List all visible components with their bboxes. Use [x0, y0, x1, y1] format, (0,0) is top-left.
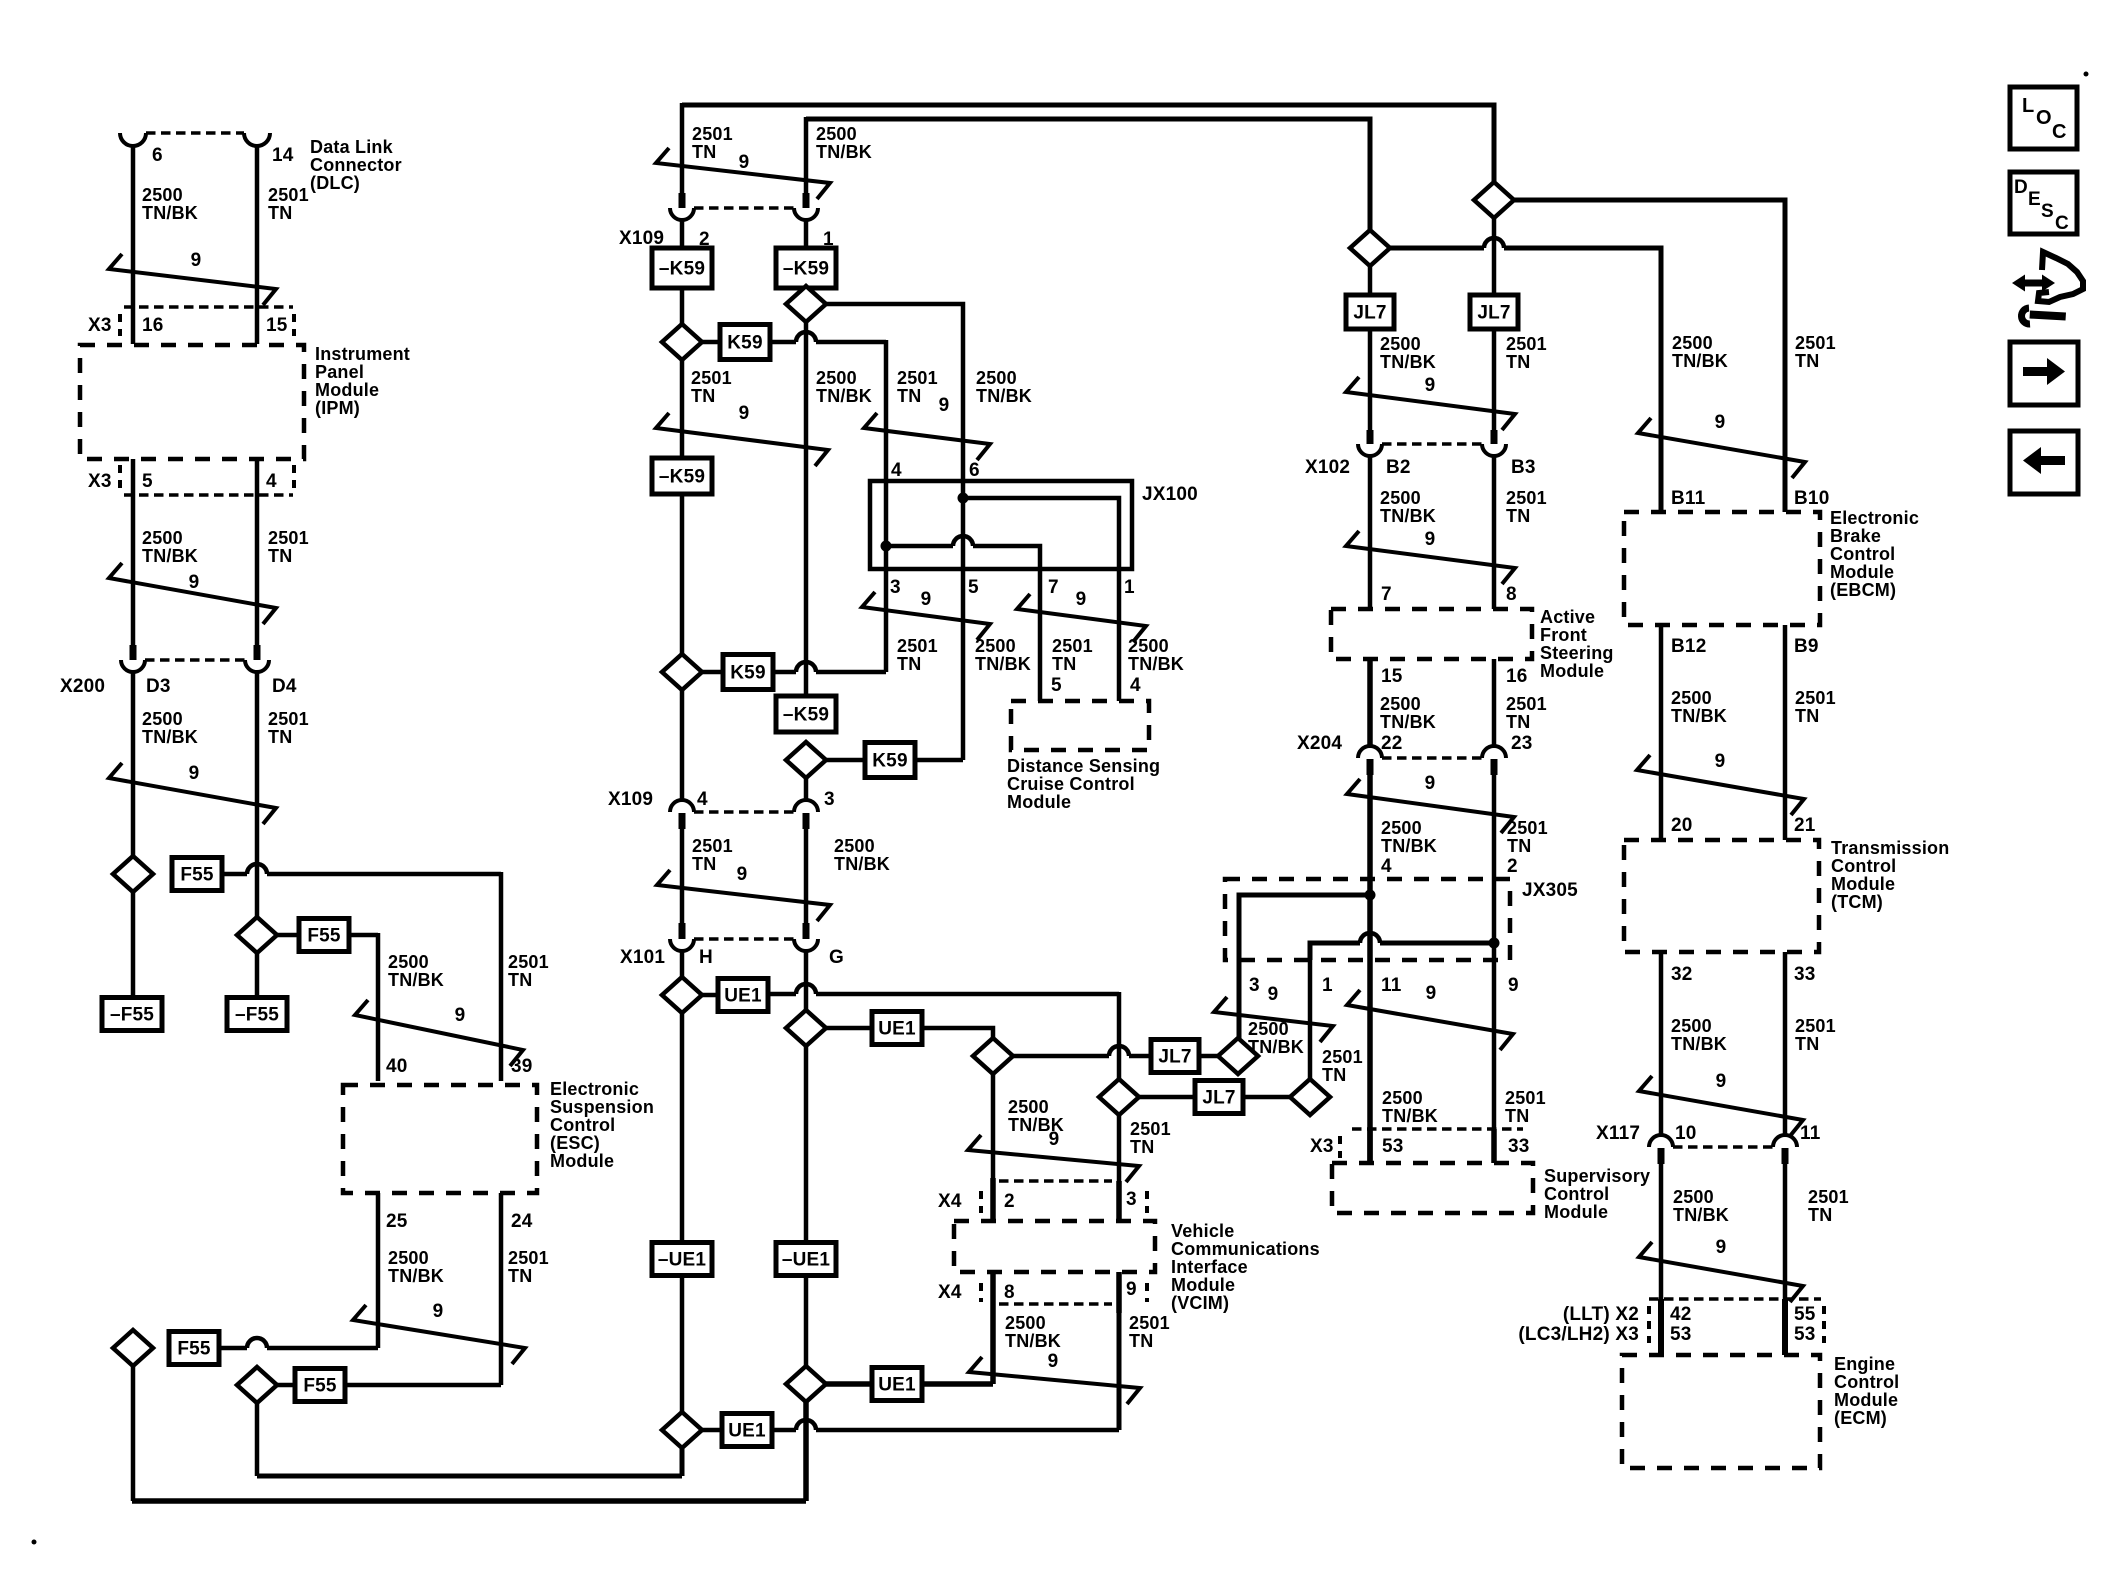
svg-text:X3: X3: [88, 315, 112, 336]
wire 2501 TN DLC:14 to IPM X3:15: [255, 145, 260, 344]
svg-text:E: E: [2028, 189, 2041, 210]
net tag UE1: [718, 979, 768, 1012]
svg-text:B2: B2: [1386, 457, 1411, 478]
net tag -F55 on 2500 TN/BK: [102, 998, 162, 1031]
net tag JL7 second: [1195, 1081, 1243, 1114]
stub VCIM X4:9: [1116, 1272, 1122, 1313]
connector X101 dashed body: [694, 937, 794, 940]
svg-text:42: 42: [1670, 1304, 1692, 1325]
svg-text:X117: X117: [1596, 1123, 1640, 1144]
wire EBCM:B12 to TCM:20: [1659, 625, 1664, 840]
wire diamond x993 down to X4:2: [991, 1074, 996, 1182]
connector DLC pin 14 cup: [244, 133, 270, 146]
wire 2501 TN down to X109:2: [680, 103, 685, 193]
connector X204 dashed body: [1382, 756, 1482, 759]
svg-text:53: 53: [1670, 1324, 1692, 1345]
wire K59 diamond to JX100:3: [796, 662, 816, 672]
crossing 9 above ESC: [355, 1000, 523, 1066]
net tag F55: [169, 1332, 219, 1365]
stub SCM X3:33: [1491, 1129, 1497, 1163]
svg-text:10: 10: [1675, 1123, 1697, 1144]
svg-text:22: 22: [1381, 733, 1403, 754]
net tag F55: [172, 858, 222, 891]
svg-text:6: 6: [969, 460, 980, 481]
svg-text:4: 4: [1130, 675, 1141, 696]
wire M2 to -UE1: [804, 1046, 809, 1245]
net tag K59: [720, 325, 770, 360]
connector X4 top VCIM: [999, 1179, 1112, 1182]
svg-text:–UE1: –UE1: [658, 1250, 707, 1271]
svg-text:8: 8: [1506, 584, 1517, 605]
svg-text:B11: B11: [1671, 488, 1706, 509]
svg-text:9: 9: [1425, 773, 1436, 794]
wire JL7 tag to diamond 1238: [1199, 1054, 1218, 1059]
svg-text:6: 6: [152, 145, 163, 166]
wire JL7 to X102:B2: [1368, 329, 1373, 430]
crossing 9 below JX305 right: [1347, 990, 1513, 1050]
svg-text:15: 15: [1381, 666, 1403, 687]
svg-text:1: 1: [1124, 577, 1135, 598]
svg-text:9: 9: [1508, 975, 1519, 996]
svg-text:X200: X200: [60, 676, 105, 697]
bus 2501 TN top horizontal: [682, 105, 1494, 182]
crossing 9 TCM-X117: [1639, 1076, 1803, 1136]
net tag UE1 fourth: [722, 1414, 772, 1447]
crossing 9 X204-JX305: [1347, 779, 1514, 833]
connector X109 pin 3: [794, 800, 818, 812]
connector X200 D4: [254, 645, 261, 660]
wire JL7 to diamond 1310: [1243, 1095, 1290, 1100]
wire M2 to X109:3: [804, 778, 809, 801]
svg-text:F55: F55: [180, 865, 214, 886]
svg-text:9: 9: [1716, 1071, 1727, 1092]
stub ECM 55: [1782, 1299, 1788, 1355]
svg-text:9: 9: [1048, 1351, 1059, 1372]
svg-text:UE1: UE1: [878, 1019, 916, 1040]
splice diamond on 2500 TN/BK: [1350, 230, 1390, 266]
junction block JX100 box: [870, 481, 1132, 569]
splice diamond on 2501 TN upper: [662, 324, 702, 360]
svg-text:4: 4: [697, 789, 708, 810]
splice diamond on x1119: [1099, 1079, 1139, 1115]
svg-text:9: 9: [1126, 1279, 1137, 1300]
svg-text:G: G: [829, 947, 844, 968]
module VCIM dashed box: [954, 1221, 1155, 1272]
svg-text:4: 4: [891, 460, 902, 481]
JX100 internal bus to pin 1: [958, 493, 969, 504]
splice diamond F55 lower on 2501 TN: [237, 1367, 277, 1403]
svg-text:53: 53: [1794, 1324, 1816, 1345]
connector X3 SCM: [1352, 1127, 1523, 1130]
crossing 9 over JX100 feeders: [864, 413, 990, 460]
bus 2500 TN/BK top horizontal: [806, 119, 1370, 230]
svg-text:9: 9: [939, 395, 950, 416]
wire JX100:7 down to DSCC:5: [1038, 569, 1043, 701]
svg-text:8: 8: [1004, 1282, 1015, 1303]
wire UE1 third row: [826, 1381, 872, 1387]
crossing 9 X200-F55: [109, 763, 276, 824]
connector X101 pin G: [803, 923, 810, 939]
svg-text:7: 7: [1048, 577, 1059, 598]
svg-text:40: 40: [386, 1056, 408, 1077]
svg-text:2: 2: [1507, 856, 1518, 877]
wire JX305:1 to diamond: [1308, 960, 1313, 1080]
connector X200 dashed body: [145, 658, 245, 661]
crossing 9 below JX305 left: [1214, 997, 1333, 1042]
svg-text:K59: K59: [730, 663, 765, 684]
svg-text:–K59: –K59: [659, 467, 705, 488]
svg-text:D4: D4: [272, 676, 297, 697]
svg-text:15: 15: [266, 315, 288, 336]
wire 2500 TN/BK X200:D3 down: [131, 672, 136, 857]
splice diamond UE1 third on M2: [786, 1366, 826, 1402]
wire JX305:9 to X3:33: [1492, 960, 1497, 1163]
svg-text:9: 9: [1426, 983, 1437, 1004]
icon arrow left box: [2010, 431, 2078, 494]
wire diamond to EBCM B10 corner: [1514, 200, 1785, 512]
wire AFS:15 to X204:22: [1367, 659, 1373, 746]
wire diamond M2 to JX100 pin 6: [826, 304, 963, 481]
svg-text:5: 5: [1051, 675, 1062, 696]
wire F55 row to ESC25 riser: [247, 1338, 267, 1348]
wire M2 -UE1 to UE1 diamond bottom: [804, 1276, 809, 1366]
wire EBCM:B9 to TCM:21: [1783, 625, 1788, 840]
svg-text:B3: B3: [1511, 457, 1536, 478]
dot bottom left: [32, 1540, 37, 1545]
icon arrow right box: [2010, 342, 2078, 405]
svg-text:JL7: JL7: [1353, 303, 1386, 324]
JX305 wire 2-9 through: [1492, 879, 1497, 960]
wire L2 to bottom bus: [255, 1403, 260, 1476]
connector X204 pin 22: [1358, 746, 1382, 758]
wire 2500 TN/BK DLC:6 to IPM X3:16: [131, 145, 136, 344]
wire TCM:33 to X117:11: [1783, 952, 1788, 1136]
svg-text:9: 9: [1076, 589, 1087, 610]
wire L2 between F55 and -F55: [255, 953, 260, 998]
svg-text:24: 24: [511, 1211, 533, 1232]
splice diamond UE1 on 2501 TN: [662, 977, 702, 1013]
wire M1 to X109:4: [680, 690, 685, 801]
svg-text:X109: X109: [608, 789, 653, 810]
svg-text:C: C: [2052, 121, 2067, 143]
svg-text:3: 3: [1249, 975, 1260, 996]
svg-text:F55: F55: [307, 926, 341, 947]
crossing 9 below JX100 right: [1017, 594, 1146, 642]
svg-text:S: S: [2041, 201, 2054, 222]
connector X102 dashed body: [1382, 442, 1482, 445]
crossing 9 below ESC: [353, 1305, 525, 1364]
bus bottom 2500 TN/BK: [132, 1498, 806, 1504]
svg-text:33: 33: [1508, 1136, 1530, 1157]
stub SCM X3:53: [1367, 1129, 1373, 1163]
svg-text:9: 9: [189, 763, 200, 784]
wire JX305:11 to X3:53: [1367, 960, 1373, 1163]
svg-text:9: 9: [1268, 984, 1279, 1005]
crossing 9 over M1 M2: [656, 413, 828, 466]
splice diamond junction x993: [973, 1038, 1013, 1074]
splice diamond UE1 fourth on M1: [662, 1412, 702, 1448]
crossing 9 IPM-X200: [109, 563, 276, 624]
wire M1 -UE1 to UE1 diamond bottom: [680, 1276, 685, 1412]
svg-text:20: 20: [1671, 815, 1693, 836]
svg-text:L: L: [2022, 95, 2034, 117]
svg-text:5: 5: [968, 577, 979, 598]
net tag -UE1 on 2500 TN/BK: [776, 1243, 836, 1276]
stub ECM 42: [1658, 1299, 1664, 1355]
wire 2500 TN/BK IPM X3:5 to X200:D3: [131, 459, 136, 646]
svg-text:D3: D3: [146, 676, 171, 697]
svg-text:4: 4: [1381, 856, 1392, 877]
connector X109 pin 4: [670, 800, 694, 812]
crossing 9 below JX100 left: [862, 592, 990, 640]
connector X3 IPM top: [124, 305, 293, 308]
svg-text:JL7: JL7: [1477, 303, 1510, 324]
net tag UE1 second: [872, 1012, 922, 1045]
svg-text:11: 11: [1381, 975, 1402, 996]
connector ECM X2 X3: [1649, 1297, 1821, 1300]
svg-text:X4: X4: [938, 1191, 962, 1212]
svg-text:JL7: JL7: [1158, 1047, 1191, 1068]
crossing 9 X117-ECM: [1639, 1242, 1803, 1302]
wire diamond to JL7 tag: [1109, 1046, 1129, 1056]
crossing 9 X102-AFS: [1346, 531, 1515, 584]
icon wrench with arrows: [2012, 275, 2055, 292]
wire diamond to EBCM B11 corner: [1484, 238, 1504, 248]
svg-text:9: 9: [455, 1005, 466, 1026]
wire JX305:3 to diamond: [1237, 960, 1242, 1038]
net tag JL7 on 2501 TN: [1470, 295, 1518, 329]
wire X4:8 down to UE1 corner: [990, 1313, 996, 1384]
splice diamond F55 on 2501 TN: [237, 917, 277, 953]
stub VCIM X4:8: [990, 1272, 996, 1313]
svg-text:9: 9: [1715, 751, 1726, 772]
wire X4:9 down to UE1 corner: [1117, 1313, 1122, 1430]
svg-text:X204: X204: [1297, 733, 1342, 754]
svg-text:7: 7: [1381, 584, 1392, 605]
connector X117 pin 11: [1773, 1135, 1797, 1147]
svg-text:C: C: [2055, 213, 2069, 234]
net tag -UE1 on 2501 TN: [652, 1243, 712, 1276]
svg-text:5: 5: [142, 471, 153, 492]
connector X204 pin 23: [1482, 746, 1506, 758]
svg-text:23: 23: [1511, 733, 1533, 754]
svg-text:16: 16: [1506, 666, 1528, 687]
wire F55 row to ESC24 riser: [277, 1383, 295, 1388]
wire x1119 to VCIM X4:3: [1117, 1114, 1122, 1186]
net tag JL7 first: [1151, 1040, 1199, 1073]
svg-text:9: 9: [433, 1301, 444, 1322]
svg-text:K59: K59: [872, 751, 907, 772]
svg-text:1: 1: [1322, 975, 1333, 996]
connector X101 pin H: [679, 923, 686, 939]
svg-text:UE1: UE1: [728, 1421, 766, 1442]
connector X4 bottom VCIM: [999, 1302, 1112, 1305]
svg-text:21: 21: [1794, 815, 1816, 836]
svg-text:F55: F55: [177, 1339, 211, 1360]
connector X200 D3: [130, 645, 137, 660]
wire M2 to bottom bus corner: [803, 1402, 809, 1501]
wire 2501 TN X200:D4 down: [255, 672, 260, 918]
JX305 wire 4-11 through: [1367, 879, 1373, 960]
wire K59 to JX100 pin 4: [796, 332, 816, 342]
svg-text:B9: B9: [1794, 636, 1819, 657]
splice diamond F55 lower on 2500 TN/BK: [113, 1330, 153, 1366]
crossing 9 DLC-IPM: [109, 254, 276, 305]
wire M1 -K59 to K59 diamond: [680, 494, 685, 655]
svg-text:53: 53: [1382, 1136, 1404, 1157]
wire X109:2 to -K59: [680, 220, 685, 248]
svg-text:–UE1: –UE1: [782, 1250, 831, 1271]
connector X109 lower dashed body: [694, 810, 794, 813]
splice diamond on JX305:1 drop: [1290, 1079, 1330, 1115]
svg-text:9: 9: [1425, 529, 1436, 550]
wire 2501 TN IPM X3:4 to X200:D4: [255, 459, 260, 646]
svg-text:–K59: –K59: [783, 259, 829, 280]
net tag F55: [295, 1369, 345, 1402]
svg-text:UE1: UE1: [878, 1375, 916, 1396]
crossing 9 X109-X101: [657, 870, 830, 921]
stub VCIM X4:2: [990, 1178, 996, 1221]
net tag -K59 on 2501 TN: [652, 248, 712, 288]
svg-text:K59: K59: [727, 333, 762, 354]
wire F55 to ESC pin 39 riser: [247, 864, 267, 874]
connector X109 dashed body: [694, 206, 794, 209]
svg-text:(LC3/LH2) X3: (LC3/LH2) X3: [1518, 1324, 1639, 1345]
connector X117 dashed body: [1673, 1145, 1773, 1148]
svg-text:B10: B10: [1794, 488, 1829, 509]
svg-text:9: 9: [189, 572, 200, 593]
net tag UE1 third: [872, 1368, 922, 1401]
svg-text:JX305: JX305: [1522, 880, 1578, 901]
wire JX100:5 down to K59 row: [961, 569, 966, 760]
wire X102:B3 to AFS:8: [1492, 456, 1497, 609]
connector X3 IPM bottom: [124, 493, 293, 496]
connector X102 pin B3: [1491, 430, 1498, 444]
svg-text:H: H: [699, 947, 713, 968]
svg-text:11: 11: [1800, 1123, 1821, 1144]
crossing 9 top: [656, 148, 830, 199]
svg-text:–K59: –K59: [659, 259, 705, 280]
svg-text:O: O: [2036, 107, 2052, 129]
wire 2501 TN ESC:24 down: [499, 1193, 504, 1385]
crossing 9 EBCM-TCM: [1637, 755, 1804, 815]
svg-text:32: 32: [1671, 964, 1693, 985]
wire M1 diamond to -K59: [680, 360, 685, 460]
svg-text:9: 9: [1425, 375, 1436, 396]
bus bottom 2501 TN: [257, 1474, 682, 1479]
svg-text:–F55: –F55: [235, 1005, 279, 1026]
svg-text:39: 39: [511, 1056, 533, 1077]
module AFS dashed box: [1331, 609, 1532, 659]
net tag -F55 on 2501 TN: [227, 998, 287, 1031]
svg-text:F55: F55: [303, 1376, 337, 1397]
wire M1 UE1 diamond to -UE1: [680, 1013, 685, 1245]
svg-text:16: 16: [142, 315, 164, 336]
splice diamond K59 lower on 2500 TN/BK: [786, 742, 826, 778]
wire UE1 to JL7 diamond chain: [826, 1026, 872, 1031]
wire R2 diamond to JL7: [1492, 218, 1497, 299]
svg-text:2: 2: [1004, 1191, 1015, 1212]
stub VCIM X4:3 lower: [1116, 1181, 1122, 1221]
svg-text:B12: B12: [1671, 636, 1706, 657]
splice diamond K59 row on 2501 TN: [662, 654, 702, 690]
svg-text:9: 9: [739, 403, 750, 424]
junction block JX305 dashed box: [1225, 879, 1510, 960]
svg-text:9: 9: [1049, 1129, 1060, 1150]
module EBCM dashed box: [1624, 512, 1820, 625]
JX100 wire pin6 to pin5 through: [961, 481, 966, 569]
wire UE1 row to VCIM riser x1119: [796, 984, 816, 994]
icon LOC box: [2010, 87, 2077, 149]
svg-text:X4: X4: [938, 1282, 962, 1303]
svg-text:9: 9: [921, 589, 932, 610]
svg-text:3: 3: [890, 577, 901, 598]
splice diamond F55 on 2500 TN/BK: [113, 856, 153, 892]
module DSCC dashed box: [1011, 701, 1149, 750]
svg-text:JX100: JX100: [1142, 484, 1198, 505]
crossing 9 JL7-X102: [1346, 377, 1515, 430]
wire F55 to ESC pin 40 riser: [277, 933, 299, 938]
wire M2 diamond to -K59 lower: [804, 320, 809, 697]
svg-text:UE1: UE1: [724, 986, 762, 1007]
wire X109:4 to X101:H: [680, 829, 685, 923]
net tag F55: [299, 919, 349, 952]
dot top right: [2084, 72, 2089, 77]
wire AFS:16 to X204:23: [1492, 659, 1497, 746]
wire M1 to bottom bus corner: [680, 1448, 685, 1476]
svg-text:4: 4: [266, 471, 277, 492]
svg-text:9: 9: [191, 250, 202, 271]
svg-text:(LLT) X2: (LLT) X2: [1563, 1304, 1639, 1325]
svg-text:25: 25: [386, 1211, 408, 1232]
crossing 9 above VCIM X4 top: [968, 1135, 1139, 1182]
wire K59 to JX100:5 riser: [826, 758, 865, 763]
svg-text:9: 9: [739, 152, 750, 173]
wire 2500 TN/BK down to X109:1: [804, 117, 809, 193]
svg-text:14: 14: [272, 145, 294, 166]
net tag -K59 on 2500 TN/BK: [776, 248, 836, 288]
svg-text:–K59: –K59: [783, 705, 829, 726]
svg-text:D: D: [2014, 177, 2028, 198]
net tag JL7 on 2500 TN/BK: [1346, 295, 1394, 329]
splice diamond top right on 2501 TN: [1474, 182, 1514, 218]
splice diamond UE1 on 2500 TN/BK: [786, 1010, 826, 1046]
svg-text:33: 33: [1794, 964, 1816, 985]
net tag -K59 on 2500 TN/BK lower: [776, 696, 836, 732]
wire X109:1 to -K59: [804, 220, 809, 248]
connector X109 pin 2: [679, 193, 686, 208]
JX305 internal bus to pin 1: [1489, 938, 1500, 949]
wire X102:B2 to AFS:7: [1368, 456, 1373, 609]
svg-text:9: 9: [1715, 412, 1726, 433]
svg-text:X101: X101: [620, 947, 665, 968]
JX100 wire pin4 to pin3 through: [884, 481, 889, 569]
svg-text:–F55: –F55: [110, 1005, 154, 1026]
connector DLC pin 6 cup: [120, 133, 146, 146]
crossing 9 above EBCM: [1638, 418, 1805, 478]
wire X204:23 to JX305:2: [1492, 775, 1497, 879]
wire JX100:1 down to DSCC:4: [1117, 569, 1122, 701]
wire UE1 fourth row to x1119: [796, 1420, 816, 1430]
svg-text:9: 9: [1716, 1237, 1727, 1258]
connector DLC dashed body: [146, 131, 244, 134]
module ESC dashed box: [343, 1085, 537, 1193]
svg-text:9: 9: [737, 864, 748, 885]
svg-text:55: 55: [1794, 1304, 1816, 1325]
net tag K59: [723, 655, 773, 690]
wire L1 between F55 and -F55: [131, 892, 136, 998]
module IPM dashed box: [80, 345, 304, 459]
